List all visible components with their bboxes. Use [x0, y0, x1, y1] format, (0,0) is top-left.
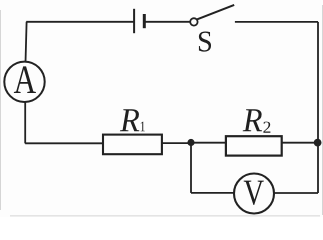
wire left vertical lower [24, 102, 26, 143]
resistor R1 [103, 135, 162, 155]
wire switch to top-right corner [235, 21, 318, 23]
battery B1 long plate [133, 9, 135, 33]
node B junction dot [314, 139, 322, 147]
battery B1 short plate [143, 14, 146, 28]
wire right vertical [317, 22, 319, 143]
ammeter A1 [4, 62, 44, 102]
wire node A to R2 [191, 142, 226, 144]
wire left vertical upper [26, 22, 27, 63]
node A junction dot [187, 139, 194, 146]
switch S blade [197, 5, 234, 20]
voltmeter V1 [234, 174, 274, 214]
wire bottom-left horizontal [25, 142, 103, 144]
label R2 [243, 109, 271, 133]
wire R1 to node A [162, 142, 191, 144]
switch S pivot [190, 18, 197, 25]
wire voltmeter branch bottom-left [191, 192, 234, 194]
wire battery to switch [146, 21, 191, 23]
resistor R2 [226, 136, 282, 155]
wire voltmeter branch right vertical [317, 143, 319, 193]
wire top-left horizontal [26, 21, 133, 23]
wire R2 to node B [282, 142, 318, 144]
wire voltmeter branch left vertical [190, 143, 192, 193]
label R1 [120, 109, 145, 131]
wire voltmeter branch bottom-right [274, 192, 318, 194]
label S [199, 32, 211, 52]
